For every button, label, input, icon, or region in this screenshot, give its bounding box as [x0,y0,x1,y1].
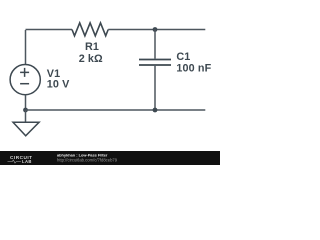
node junction capacitor top [153,27,158,32]
svg-text:R1: R1 [85,41,99,53]
capacitor C1 [139,60,171,66]
svg-text:10 V: 10 V [47,79,70,91]
node junction at source bottom [23,108,28,113]
wire ground lead [25,110,27,122]
node junction capacitor bottom [153,108,158,113]
svg-text:2 kΩ: 2 kΩ [79,53,103,65]
ground [13,122,39,136]
wire top right segment [108,29,205,31]
footer watermark bar [0,151,220,165]
svg-text:C1: C1 [176,51,190,63]
wire source bottom lead [25,95,27,110]
svg-text:100 nF: 100 nF [176,63,211,75]
CircuitLab logo text [8,155,33,164]
wire capacitor bottom lead [154,66,156,110]
wire top left segment [26,29,73,31]
svg-text:http://circuitlab.com/c/7fd8ce: http://circuitlab.com/c/7fd8ceb79 [57,157,118,162]
svg-text:LAB: LAB [22,159,32,164]
resistor R1 [72,23,108,36]
wire bottom horizontal [26,109,206,111]
voltage source V1 [10,65,40,95]
wire capacitor top lead [154,30,156,59]
wire left vertical (source top lead) [25,30,27,64]
